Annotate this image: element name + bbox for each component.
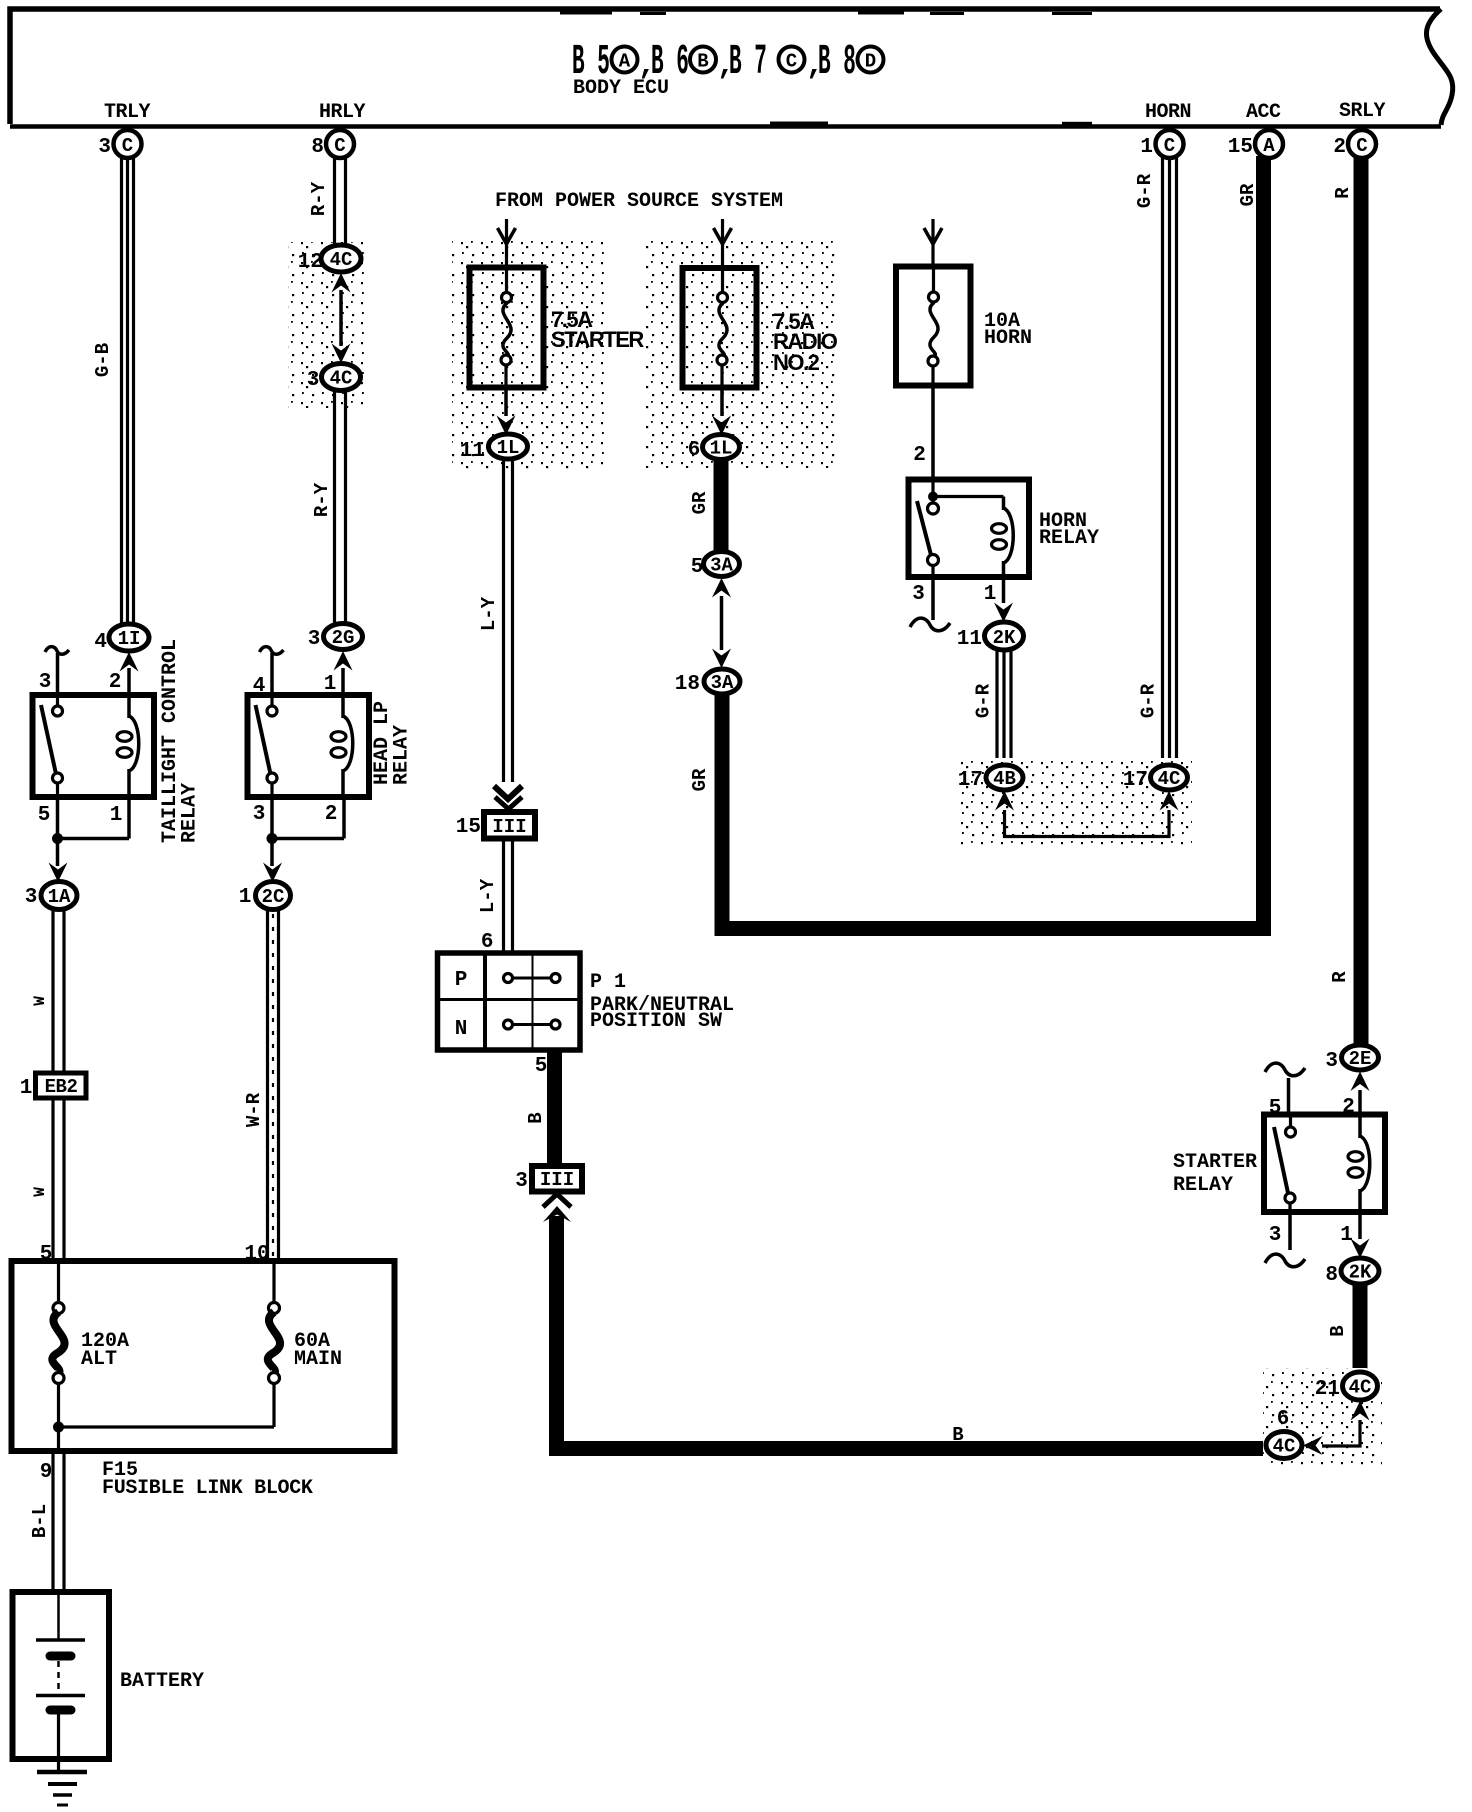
svg-text:III: III — [540, 1169, 574, 1191]
wire R thick (SRLY to 3-2E) — [1354, 156, 1369, 1046]
connector 3(1A) — [25, 882, 77, 910]
wire R-Y (3-4C to 2G, double line) — [335, 390, 346, 624]
svg-text:3: 3 — [25, 886, 38, 909]
svg-text:R: R — [1329, 971, 1351, 983]
head LP relay pin4 stub with break squiggle — [260, 647, 284, 695]
arrow up into 2E — [1351, 1072, 1370, 1092]
junction link under 4B/4C with arrows up — [995, 791, 1179, 837]
svg-text:4C: 4C — [330, 249, 353, 271]
svg-text:1L: 1L — [710, 438, 733, 460]
shaded junction block region (HRLY 4C) — [288, 242, 366, 408]
connector 3(III) — [515, 1166, 582, 1193]
wire W (1A to EB2, double line) — [53, 909, 64, 1073]
svg-text:17: 17 — [1123, 769, 1148, 792]
svg-text:8: 8 — [311, 136, 324, 159]
shaded region (radio fuse) — [645, 237, 838, 468]
svg-text:3: 3 — [39, 671, 52, 694]
svg-text:GR: GR — [1237, 183, 1259, 206]
svg-text:C: C — [122, 135, 133, 157]
connector 5(3A) — [691, 552, 740, 580]
shaded junction block region (21/6 4C) — [1263, 1368, 1382, 1466]
connector 11(1L) — [460, 434, 528, 463]
svg-text:POSITION SW: POSITION SW — [590, 1010, 722, 1033]
svg-text:RELAY: RELAY — [1039, 527, 1099, 550]
svg-text:1: 1 — [239, 886, 252, 909]
svg-text:3: 3 — [98, 136, 111, 159]
connector 2(C) SRLY — [1333, 130, 1376, 159]
svg-text:NO.2: NO.2 — [773, 350, 820, 375]
head LP relay pin3/pin2 joint wiring — [267, 797, 345, 844]
svg-text:GR: GR — [689, 491, 711, 514]
power feed arrow (radio fuse) — [714, 219, 732, 266]
wire GR thick (1L to 5-3A) — [714, 459, 729, 553]
svg-text:3A: 3A — [711, 672, 734, 694]
connector 3(2G) — [308, 624, 363, 652]
arrow up into 2G — [334, 651, 353, 671]
svg-text:B: B — [525, 1112, 547, 1123]
starter relay pin5 stub with break squiggle — [1265, 1063, 1305, 1115]
chevron and arrow up from B wire into 3(III) — [543, 1194, 571, 1222]
connector 21(4C) — [1315, 1372, 1378, 1401]
arrow down into 3(4C) — [332, 344, 351, 364]
ground — [37, 1772, 87, 1805]
svg-text:2: 2 — [109, 671, 122, 694]
svg-text:3: 3 — [1269, 1224, 1282, 1247]
svg-text:2: 2 — [325, 803, 338, 826]
svg-text:1: 1 — [1140, 136, 1153, 159]
svg-text:B: B — [697, 51, 708, 73]
horn relay coil — [992, 497, 1014, 578]
starter relay pin numbers top — [1269, 1096, 1355, 1120]
svg-text:HRLY: HRLY — [319, 101, 366, 124]
connector 3(2E) — [1325, 1045, 1378, 1073]
svg-text:W: W — [31, 996, 49, 1006]
wire 2G to head LP relay pin1 — [341, 668, 345, 695]
fusible link 60A MAIN — [268, 1261, 342, 1384]
svg-text:3: 3 — [515, 1170, 528, 1193]
head LP relay box — [248, 695, 370, 797]
connector 18(3A) — [675, 669, 740, 696]
wire GR thick (18-3A down, across, up to ACC) — [722, 156, 1264, 929]
wire G-B (TRLY to 1I, triple line) — [122, 156, 134, 624]
svg-text:GR: GR — [689, 768, 711, 791]
connector 1(2C) — [239, 882, 291, 910]
body ECU band — [10, 9, 1453, 127]
battery — [13, 1592, 205, 1772]
svg-text:18: 18 — [675, 673, 700, 696]
svg-text:9: 9 — [40, 1461, 53, 1484]
svg-text:4C: 4C — [330, 368, 353, 390]
head LP relay switch — [256, 695, 278, 797]
svg-text:BODY ECU: BODY ECU — [573, 77, 669, 100]
svg-text:C: C — [786, 51, 797, 73]
label TAILLIGHT CONTROL RELAY — [159, 639, 202, 843]
svg-text:B: B — [952, 1424, 963, 1446]
shaded junction block region (4B/4C) — [956, 758, 1192, 846]
wire G-R (HORN 1C to 17-4C, triple line) — [1163, 156, 1177, 766]
wire B-L (block to battery, double line) — [53, 1451, 64, 1592]
head LP relay coil — [331, 695, 353, 797]
junction link 21(4C) to 6(4C) with arrows — [1303, 1401, 1370, 1455]
svg-text:15: 15 — [456, 816, 481, 839]
svg-text:G-B: G-B — [92, 343, 114, 377]
label HEAD LP RELAY — [371, 701, 414, 785]
label HORN RELAY — [1039, 510, 1099, 550]
svg-text:1: 1 — [20, 1077, 33, 1100]
svg-text:4: 4 — [253, 675, 266, 698]
svg-text:2K: 2K — [993, 627, 1016, 649]
svg-text:3: 3 — [253, 803, 266, 826]
wire 2E to starter relay pin2 — [1358, 1090, 1362, 1115]
fusible link block internal joint — [53, 1383, 274, 1451]
shaded region (starter fuse) — [452, 237, 605, 470]
svg-text:G-R: G-R — [1134, 173, 1156, 208]
connector 6(1L) — [688, 435, 740, 463]
taillight control relay box — [33, 695, 155, 797]
svg-text:L-Y: L-Y — [477, 878, 499, 913]
svg-text:,: , — [806, 49, 824, 83]
horn relay box — [909, 480, 1030, 578]
svg-text:G-R: G-R — [1138, 683, 1160, 718]
svg-text:III: III — [492, 816, 526, 838]
wire B thick (pin5 to 3-III) — [547, 1050, 562, 1166]
connector 12(4C) — [298, 245, 361, 274]
power feed arrow (starter fuse) — [498, 219, 516, 266]
label STARTER RELAY — [1173, 1151, 1257, 1197]
svg-text:1: 1 — [324, 673, 337, 696]
starter relay coil — [1348, 1115, 1370, 1212]
connector 1(C) HORN — [1140, 130, 1183, 159]
wire and arrow into 6(1L) — [712, 387, 731, 435]
svg-text:3A: 3A — [710, 555, 733, 577]
taillight relay switch — [41, 695, 63, 797]
svg-text:P 1: P 1 — [590, 971, 626, 994]
wire L-Y (1L to 15-III, double line) — [504, 459, 513, 782]
svg-text:3: 3 — [307, 369, 320, 392]
arrow down into 18(3A) — [712, 649, 731, 669]
svg-text:ACC: ACC — [1246, 101, 1281, 124]
arrow up into 5(3A) — [712, 578, 731, 598]
fusible link block F15 box — [12, 1261, 395, 1451]
fuse 10A HORN — [896, 266, 1032, 386]
svg-text:,: , — [717, 49, 735, 83]
junction to 2C with arrow down — [263, 843, 282, 882]
svg-text:EB2: EB2 — [45, 1076, 78, 1098]
svg-text:1A: 1A — [48, 886, 71, 908]
connector 8(C) HRLY — [311, 130, 354, 159]
svg-text:L-Y: L-Y — [478, 596, 500, 631]
starter relay pin3 with break squiggle — [1265, 1212, 1305, 1267]
svg-text:6: 6 — [1277, 1408, 1290, 1431]
wire 5(3A) to 18(3A) — [720, 596, 724, 650]
svg-text:17: 17 — [958, 769, 983, 792]
svg-text:R-Y: R-Y — [308, 181, 330, 216]
connector 15(A) ACC — [1228, 130, 1283, 159]
connector 4(1I) — [94, 624, 149, 654]
svg-text:4B: 4B — [993, 768, 1016, 790]
connector 1(EB2) — [20, 1073, 86, 1100]
svg-text:15: 15 — [1228, 136, 1253, 159]
svg-text:ALT: ALT — [81, 1348, 117, 1371]
svg-text:8: 8 — [1325, 1264, 1338, 1287]
taillight relay pin numbers — [38, 671, 123, 827]
svg-text:C: C — [1164, 135, 1175, 157]
horn relay internal junction — [928, 480, 1004, 503]
svg-text:G-R: G-R — [973, 683, 995, 718]
junction to 1A with arrow down — [49, 843, 68, 882]
svg-text:R-Y: R-Y — [311, 482, 333, 517]
connector 11(2K) — [957, 622, 1024, 651]
scan noise ticks on band — [560, 11, 1092, 125]
wire 12(4C) to 3(4C) — [339, 290, 343, 346]
head LP relay pin numbers — [253, 673, 338, 826]
svg-text:P: P — [455, 969, 468, 992]
svg-text:C: C — [334, 135, 345, 157]
fuse 7.5A STARTER — [470, 267, 645, 388]
connector 15(III) — [456, 812, 535, 839]
svg-text:21: 21 — [1315, 1378, 1340, 1401]
svg-text:4C: 4C — [1273, 1436, 1296, 1458]
svg-text:RELAY: RELAY — [391, 725, 414, 785]
fuse 7.5A RADIO NO.2 — [683, 268, 838, 388]
label F15 FUSIBLE LINK BLOCK — [102, 1459, 313, 1500]
svg-text:4: 4 — [94, 631, 107, 654]
svg-text:FUSIBLE LINK BLOCK: FUSIBLE LINK BLOCK — [102, 1477, 313, 1500]
wire B thick (3-III down, across bottom to 4C) — [557, 1216, 1267, 1449]
svg-text:2E: 2E — [1349, 1048, 1372, 1070]
wire 1I to taillight relay pin2 — [127, 668, 131, 695]
connector 3(C) TRLY — [98, 130, 141, 159]
svg-text:2C: 2C — [262, 886, 285, 908]
horn relay pin3 with break squiggle — [910, 577, 950, 631]
svg-text:N: N — [455, 1018, 468, 1041]
svg-text:4C: 4C — [1158, 768, 1181, 790]
connector 3(4C) — [307, 364, 361, 393]
taillight relay pin3 stub with break squiggle — [45, 647, 69, 695]
svg-text:D: D — [865, 51, 876, 73]
wire G-R (2K to 17-4B, triple line) — [997, 649, 1011, 766]
wire and arrow into 11(1L) — [497, 387, 516, 435]
svg-text:B-L: B-L — [29, 1504, 51, 1538]
connector 6(4C) — [1266, 1408, 1302, 1459]
svg-text:3: 3 — [1325, 1050, 1338, 1073]
wire W (EB2 to fusible link block) — [53, 1098, 64, 1261]
wire W-R (2C to fusible link block, double line with dashed core) — [268, 909, 279, 1261]
arrow up into 12(4C) — [332, 273, 351, 293]
power feed arrow (horn fuse) — [924, 219, 942, 265]
svg-text:4C: 4C — [1349, 1377, 1372, 1399]
svg-text:STARTER: STARTER — [1173, 1151, 1257, 1174]
label BODY ECU connectors B5(A),B6(B),B7(C),B8(D) — [572, 39, 884, 100]
svg-text:RELAY: RELAY — [179, 783, 202, 843]
svg-text:1: 1 — [984, 583, 997, 606]
svg-text:2G: 2G — [332, 627, 355, 649]
svg-text:TRLY: TRLY — [104, 101, 151, 124]
wire L-Y (III to park/neutral sw, double line) — [504, 838, 513, 953]
svg-text:2: 2 — [913, 444, 926, 467]
svg-text:HORN: HORN — [984, 327, 1032, 350]
svg-text:5: 5 — [38, 804, 51, 827]
svg-text:RELAY: RELAY — [1173, 1174, 1233, 1197]
starter relay switch — [1274, 1115, 1296, 1212]
fusible link 120A ALT — [52, 1261, 129, 1384]
starter relay box — [1264, 1115, 1385, 1213]
svg-text:6: 6 — [688, 439, 701, 462]
svg-text:W: W — [31, 1187, 49, 1197]
svg-text:1I: 1I — [118, 628, 141, 650]
wire horn fuse to horn relay pin2 — [931, 385, 935, 480]
svg-text:BATTERY: BATTERY — [120, 1670, 204, 1693]
svg-text:W-R: W-R — [243, 1092, 265, 1127]
park/neutral position switch P1 — [438, 953, 581, 1050]
connector 17(4C) — [1123, 765, 1188, 792]
svg-text:FROM POWER SOURCE SYSTEM: FROM POWER SOURCE SYSTEM — [495, 190, 783, 213]
connector 8(2K) — [1325, 1258, 1379, 1287]
svg-text:A: A — [1263, 135, 1275, 157]
svg-text:1: 1 — [1340, 1224, 1353, 1247]
svg-text:B: B — [1327, 1325, 1349, 1336]
svg-text:2K: 2K — [1349, 1262, 1372, 1284]
horn relay switch — [917, 501, 939, 577]
arrow up into 1I — [120, 652, 139, 672]
svg-text:C: C — [1356, 135, 1367, 157]
double chevron into 15(III) — [494, 786, 522, 809]
svg-text:1L: 1L — [497, 437, 520, 459]
starter relay pin1 to 8(2K) — [1340, 1212, 1369, 1258]
svg-text:5: 5 — [535, 1055, 548, 1078]
svg-text:A: A — [619, 51, 631, 73]
svg-text:1: 1 — [110, 804, 123, 827]
svg-text:SRLY: SRLY — [1339, 100, 1386, 123]
svg-text:2: 2 — [1333, 136, 1346, 159]
svg-text:HORN: HORN — [1145, 101, 1191, 124]
horn relay pin1 to 11(2K) — [984, 577, 1013, 622]
taillight relay pin5/pin1 joint wiring — [52, 797, 129, 844]
wire R-Y (HRLY to 12-4C, double line) — [335, 156, 346, 246]
svg-text:3: 3 — [308, 628, 321, 651]
svg-text:11: 11 — [460, 440, 485, 463]
taillight relay coil — [117, 695, 139, 797]
svg-text:MAIN: MAIN — [294, 1348, 342, 1371]
label P 1 PARK/NEUTRAL POSITION SW — [590, 971, 734, 1033]
svg-text:3: 3 — [912, 583, 925, 606]
svg-text:R: R — [1332, 187, 1354, 199]
connector 17(4B) — [958, 765, 1023, 792]
svg-text:5: 5 — [691, 556, 704, 579]
svg-text:STARTER: STARTER — [551, 327, 644, 352]
svg-text:11: 11 — [957, 628, 982, 651]
wire B thick (2K to 21-4C) — [1353, 1284, 1368, 1373]
svg-text:12: 12 — [298, 251, 323, 274]
